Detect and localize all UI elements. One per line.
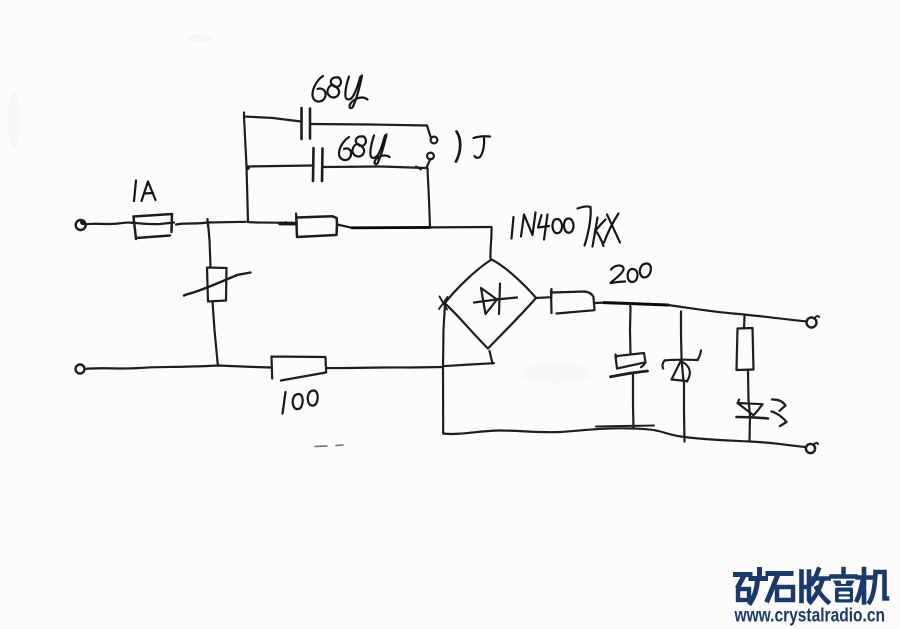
svg-text:www.crystalradio.cn: www.crystalradio.cn — [734, 604, 885, 626]
